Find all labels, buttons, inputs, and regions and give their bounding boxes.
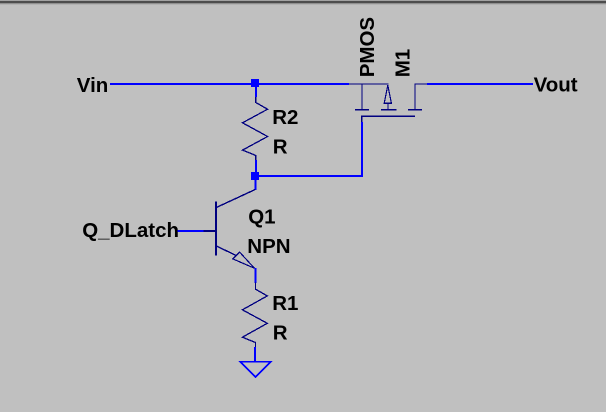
wire Q_DLatch to Q1 base [178,230,204,232]
wire R2 to node N002 [255,160,257,172]
svg-text:Vout: Vout [534,74,578,97]
resistor R1 [242,283,267,350]
ground [240,362,271,377]
wire node N002 to Q1 collector [254,180,256,190]
svg-text:Vin: Vin [77,74,109,97]
svg-text:Q_DLatch: Q_DLatch [82,219,179,242]
wire node N001 to M1 source [258,83,349,85]
transistor Q1 NPN [203,190,255,269]
wire R1 to ground [254,347,256,362]
wire node N001 to R2 [255,87,257,97]
svg-text:PMOS: PMOS [356,17,379,77]
svg-text:R: R [273,136,288,159]
svg-text:NPN: NPN [247,235,290,258]
resistor R2 [243,97,268,162]
mosfet M1 PMOS [349,84,428,124]
wire node N002 to M1 gate [258,122,363,177]
svg-text:R2: R2 [272,106,298,129]
svg-text:R: R [273,322,288,345]
svg-text:Q1: Q1 [248,206,275,229]
svg-text:R1: R1 [272,292,298,315]
wire M1 drain to Vout [427,83,533,85]
node N002 junction R2/Q1/M1-gate [251,172,259,180]
wire Q1 emitter to R1 [254,268,256,283]
svg-text:M1: M1 [392,49,415,77]
wire Vin to node N001 [110,83,252,85]
node N001 junction Vin/R2/M1 [251,79,259,87]
